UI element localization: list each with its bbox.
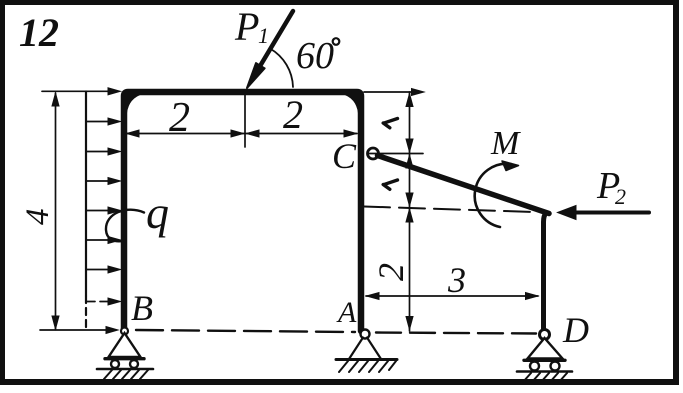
frame member: left column B, top beam, middle column A (124, 92, 361, 331)
dimension 1+1+2: top tick (364, 91, 414, 93)
svg-text:B: B (131, 288, 153, 328)
svg-text:2: 2 (283, 92, 303, 137)
corner fillet right (342, 94, 358, 113)
support B: hinge circle (121, 328, 128, 335)
svg-text:3: 3 (447, 260, 466, 300)
svg-text:12: 12 (19, 10, 59, 55)
svg-text:1: 1 (258, 23, 269, 48)
support B ground line (97, 368, 153, 371)
support B rollers (111, 360, 119, 368)
support D rollers (530, 362, 539, 371)
dash-dot level line at P2 height (364, 207, 535, 213)
support D base line (524, 359, 565, 362)
corner fillet left (127, 94, 143, 113)
column D vertical (544, 213, 547, 331)
support A triangle legs (349, 338, 381, 360)
support B base line (105, 357, 144, 360)
dash-dot base line A to D (376, 333, 536, 334)
dimension 4 vertical line (55, 93, 57, 329)
svg-text:2: 2 (371, 263, 411, 281)
60 degree arc (270, 49, 293, 88)
q leader squiggle (106, 210, 144, 242)
moment M arc (475, 164, 511, 227)
center tick (244, 92, 246, 147)
support A: hinge circle (361, 330, 370, 339)
support D ground line (517, 370, 572, 373)
distributed load q: left boundary line (85, 92, 87, 297)
dimension 3 line (366, 295, 538, 297)
support D triangle (528, 338, 563, 359)
support B hatching (104, 370, 148, 379)
arrows on vertical dim line (406, 94, 413, 107)
support D: hinge circle (540, 330, 550, 340)
support A ground line (336, 358, 397, 361)
svg-text:60: 60 (296, 35, 334, 77)
tick at C level (368, 153, 423, 155)
force P2 arrow (572, 211, 649, 215)
svg-text:P: P (234, 4, 259, 49)
svg-text:2: 2 (615, 184, 626, 209)
svg-text:C: C (332, 136, 357, 176)
label 1 upper (rotated) (383, 119, 397, 128)
svg-text:2: 2 (169, 95, 190, 141)
vertical dim line (409, 92, 411, 331)
support A hatching (339, 361, 396, 372)
dash-dot base line B to A (136, 330, 355, 332)
load arrow lines (87, 118, 121, 305)
arrows on 2+2 (127, 130, 140, 137)
svg-text:q: q (146, 187, 169, 238)
dimension 4: extension ticks (42, 90, 113, 92)
svg-text:M: M (490, 125, 521, 162)
svg-text:A: A (336, 296, 357, 329)
inclined bar C to D column top (378, 156, 550, 214)
svg-text:D: D (562, 310, 589, 350)
label 1 lower (rotated) (383, 180, 397, 189)
hinge C circle (368, 148, 379, 159)
M arrowhead (502, 161, 519, 171)
support B triangle (109, 333, 141, 357)
support D hatching (523, 373, 567, 382)
dimension 2+2 line (126, 133, 357, 135)
force P1 arrow (254, 11, 294, 77)
svg-text:4: 4 (20, 209, 56, 226)
